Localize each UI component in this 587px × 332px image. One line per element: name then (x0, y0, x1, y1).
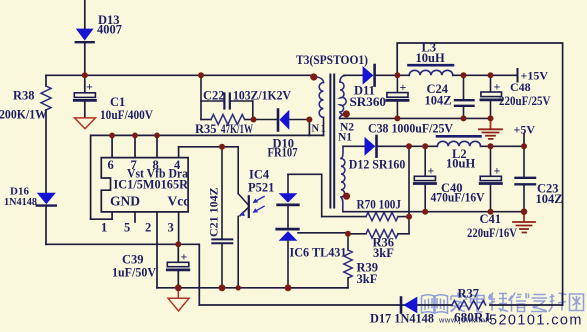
label C39 1uF/50V (112, 253, 156, 280)
diode D10 (254, 110, 310, 131)
capacitor C41 (480, 146, 501, 211)
wire D11 output line (344, 74, 397, 76)
label D10 FR107 (268, 137, 298, 160)
svg-text:1: 1 (101, 221, 107, 235)
wire pin4 line to C21 and IC4 (179, 146, 239, 148)
resistor R35 (201, 115, 254, 125)
svg-text:N1: N1 (312, 124, 328, 135)
label R36 3kF (373, 236, 395, 261)
svg-text:103Z/1K2V: 103Z/1K2V (233, 89, 291, 103)
label C24 104Z (425, 82, 452, 108)
svg-text:+5V: +5V (514, 123, 536, 137)
svg-text:680RJ: 680RJ (454, 311, 490, 325)
wire N1 jog to primary (309, 120, 323, 136)
capacitor C1 (74, 75, 95, 117)
svg-text:C38 1000uF/25V: C38 1000uF/25V (368, 122, 453, 136)
node +15V tick (517, 69, 519, 82)
wire top HV bus (46, 74, 314, 76)
svg-text:Vcc: Vcc (168, 194, 190, 209)
label R35 47K/1W (195, 122, 253, 136)
label R39 3kF (357, 261, 379, 287)
capacitor C38 (387, 75, 408, 118)
label C40 470uF/16V (431, 181, 485, 205)
svg-text:1N4148: 1N4148 (4, 196, 37, 208)
wire pin3 vcc (178, 212, 180, 244)
capacitor C24 (455, 75, 474, 118)
transformer T3 primary winding (314, 77, 324, 136)
svg-text:3: 3 (168, 221, 174, 235)
label L3 10uH (416, 41, 445, 66)
label C48 220uF/25V (499, 80, 551, 108)
resistor R70 (322, 212, 409, 220)
label IC4 P521 (248, 168, 274, 195)
svg-text:+: + (428, 163, 435, 177)
svg-text:470uF/16V: 470uF/16V (431, 191, 485, 205)
svg-text:C22: C22 (203, 89, 225, 103)
svg-text:5: 5 (124, 221, 130, 235)
svg-text:2: 2 (145, 221, 151, 235)
wire bypass feedback loop (397, 43, 562, 305)
label C22 103Z/1K2V (203, 89, 291, 103)
diode D17 (401, 297, 417, 314)
svg-text:10uH: 10uH (446, 157, 475, 171)
svg-text:R70 100J: R70 100J (357, 198, 402, 212)
label N2 N1 (338, 122, 354, 144)
svg-text:47K/1W: 47K/1W (221, 122, 253, 136)
svg-text:R35: R35 (195, 122, 217, 136)
capacitor C22 (201, 94, 253, 109)
capacitor C48 (481, 75, 502, 118)
label GND Vcc (110, 194, 189, 209)
label D16 1N4148 (4, 186, 37, 208)
svg-text:D17 1N4148: D17 1N4148 (370, 312, 434, 326)
wire pin stubs top (112, 135, 179, 157)
wire 15V rail (397, 74, 516, 76)
svg-text:1uF/50V: 1uF/50V (112, 266, 156, 280)
wire pin5 stub (134, 212, 136, 222)
transformer T3 core (330, 75, 334, 208)
svg-text:+: + (400, 80, 407, 94)
svg-text:3kF: 3kF (357, 272, 378, 286)
transformer T3 secondary N1 lower (341, 146, 345, 211)
resistor R38 (41, 75, 51, 192)
label C41 220uF/16V (467, 212, 517, 240)
svg-text:6: 6 (108, 158, 114, 172)
wire snubber verticals (201, 75, 253, 119)
resistor R37 (452, 301, 486, 310)
ground chassis G2 (513, 212, 535, 233)
ground red triangle C1 (75, 118, 96, 129)
svg-text:C39: C39 (122, 253, 144, 267)
svg-text:+: + (494, 80, 501, 94)
resistor R39 (288, 234, 352, 288)
label IC1 pins top (108, 158, 182, 172)
wire 15V return line (340, 117, 491, 119)
ground red triangle C39 (168, 288, 189, 311)
label D13 4007 (97, 13, 122, 37)
svg-text:FR107: FR107 (268, 146, 298, 160)
label C1 10uF/400V (100, 95, 153, 122)
node +5V tick (523, 134, 525, 147)
svg-text:SR360: SR360 (350, 95, 387, 109)
capacitor C39 (167, 244, 189, 287)
svg-text:IC6 TL431: IC6 TL431 (290, 246, 347, 260)
wire bottom feedback line (199, 304, 562, 306)
diode D16 (37, 193, 56, 245)
transformer T3 secondary N2 upper (340, 76, 347, 119)
svg-text:+: + (181, 250, 188, 264)
transistor Q IC4 phototransistor (238, 147, 249, 288)
svg-text:520101.com: 520101.com (489, 313, 583, 329)
wire Vcc line (46, 244, 199, 305)
diode IC4 LED (278, 174, 299, 227)
svg-text:D12 SR160: D12 SR160 (349, 158, 406, 172)
diode D13 (76, 29, 94, 43)
wire drain bus pins 6,7,8 (91, 135, 310, 219)
inductor L3 (409, 65, 454, 75)
svg-text:200K/1W: 200K/1W (0, 108, 47, 122)
svg-text:N1: N1 (338, 132, 352, 144)
svg-text:IC4: IC4 (249, 168, 270, 182)
wire 5V return line (343, 211, 524, 213)
svg-text:C21 104Z: C21 104Z (207, 187, 221, 237)
IC4 light arrows (253, 197, 264, 213)
watermark book icon (422, 295, 448, 313)
diode D12 (365, 136, 377, 157)
label D11 SR360 (350, 84, 387, 110)
svg-text:IC1/5M0165R: IC1/5M0165R (114, 177, 189, 192)
svg-text:10uH: 10uH (416, 51, 445, 65)
svg-text:+: + (86, 80, 93, 94)
label IC1 pins bottom (101, 221, 174, 235)
watermark chinese characters (451, 293, 584, 313)
svg-text:R38: R38 (13, 89, 35, 103)
svg-text:P521: P521 (248, 181, 274, 195)
wire pin1 loop (91, 212, 113, 219)
svg-text:+: + (494, 163, 501, 177)
wire R70 branch vertical (408, 146, 410, 234)
svg-text:10uF/400V: 10uF/400V (100, 108, 153, 122)
svg-text:220uF/16V: 220uF/16V (467, 226, 517, 240)
svg-text:C48: C48 (510, 80, 531, 94)
label C23 104Z (536, 182, 563, 207)
resistor R36 (348, 230, 409, 238)
op-amp U1 IC1 box (101, 158, 188, 212)
wire D13 vertical (84, 0, 86, 75)
diode D11 (363, 65, 375, 86)
wire bottom GND rail (157, 287, 348, 289)
wire LED anode to R70 branch (288, 174, 322, 216)
inductor L2 (437, 136, 481, 146)
label R38 200K/1W (0, 89, 47, 122)
wire D12 line (343, 145, 409, 147)
svg-text:3kF: 3kF (373, 246, 394, 260)
svg-text:104Z: 104Z (536, 192, 563, 206)
svg-text:GND: GND (110, 194, 140, 209)
capacitor C40 (414, 146, 435, 211)
capacitor C21 (212, 147, 232, 288)
label R37 680RJ (454, 287, 490, 325)
svg-text:R37: R37 (458, 287, 480, 301)
capacitor C23 (516, 146, 536, 211)
ground chassis G1 (479, 118, 502, 138)
wire +5V rail (409, 145, 524, 147)
svg-text:104Z: 104Z (425, 94, 452, 108)
label L2 10uH (446, 147, 475, 171)
diode IC6 TL431 (277, 229, 348, 288)
wire pin2 to bottom rail (156, 212, 158, 288)
svg-text:T3(SPSTOO1): T3(SPSTOO1) (296, 53, 368, 67)
svg-text:4007: 4007 (97, 23, 122, 37)
svg-text:220uF/25V: 220uF/25V (499, 94, 551, 108)
